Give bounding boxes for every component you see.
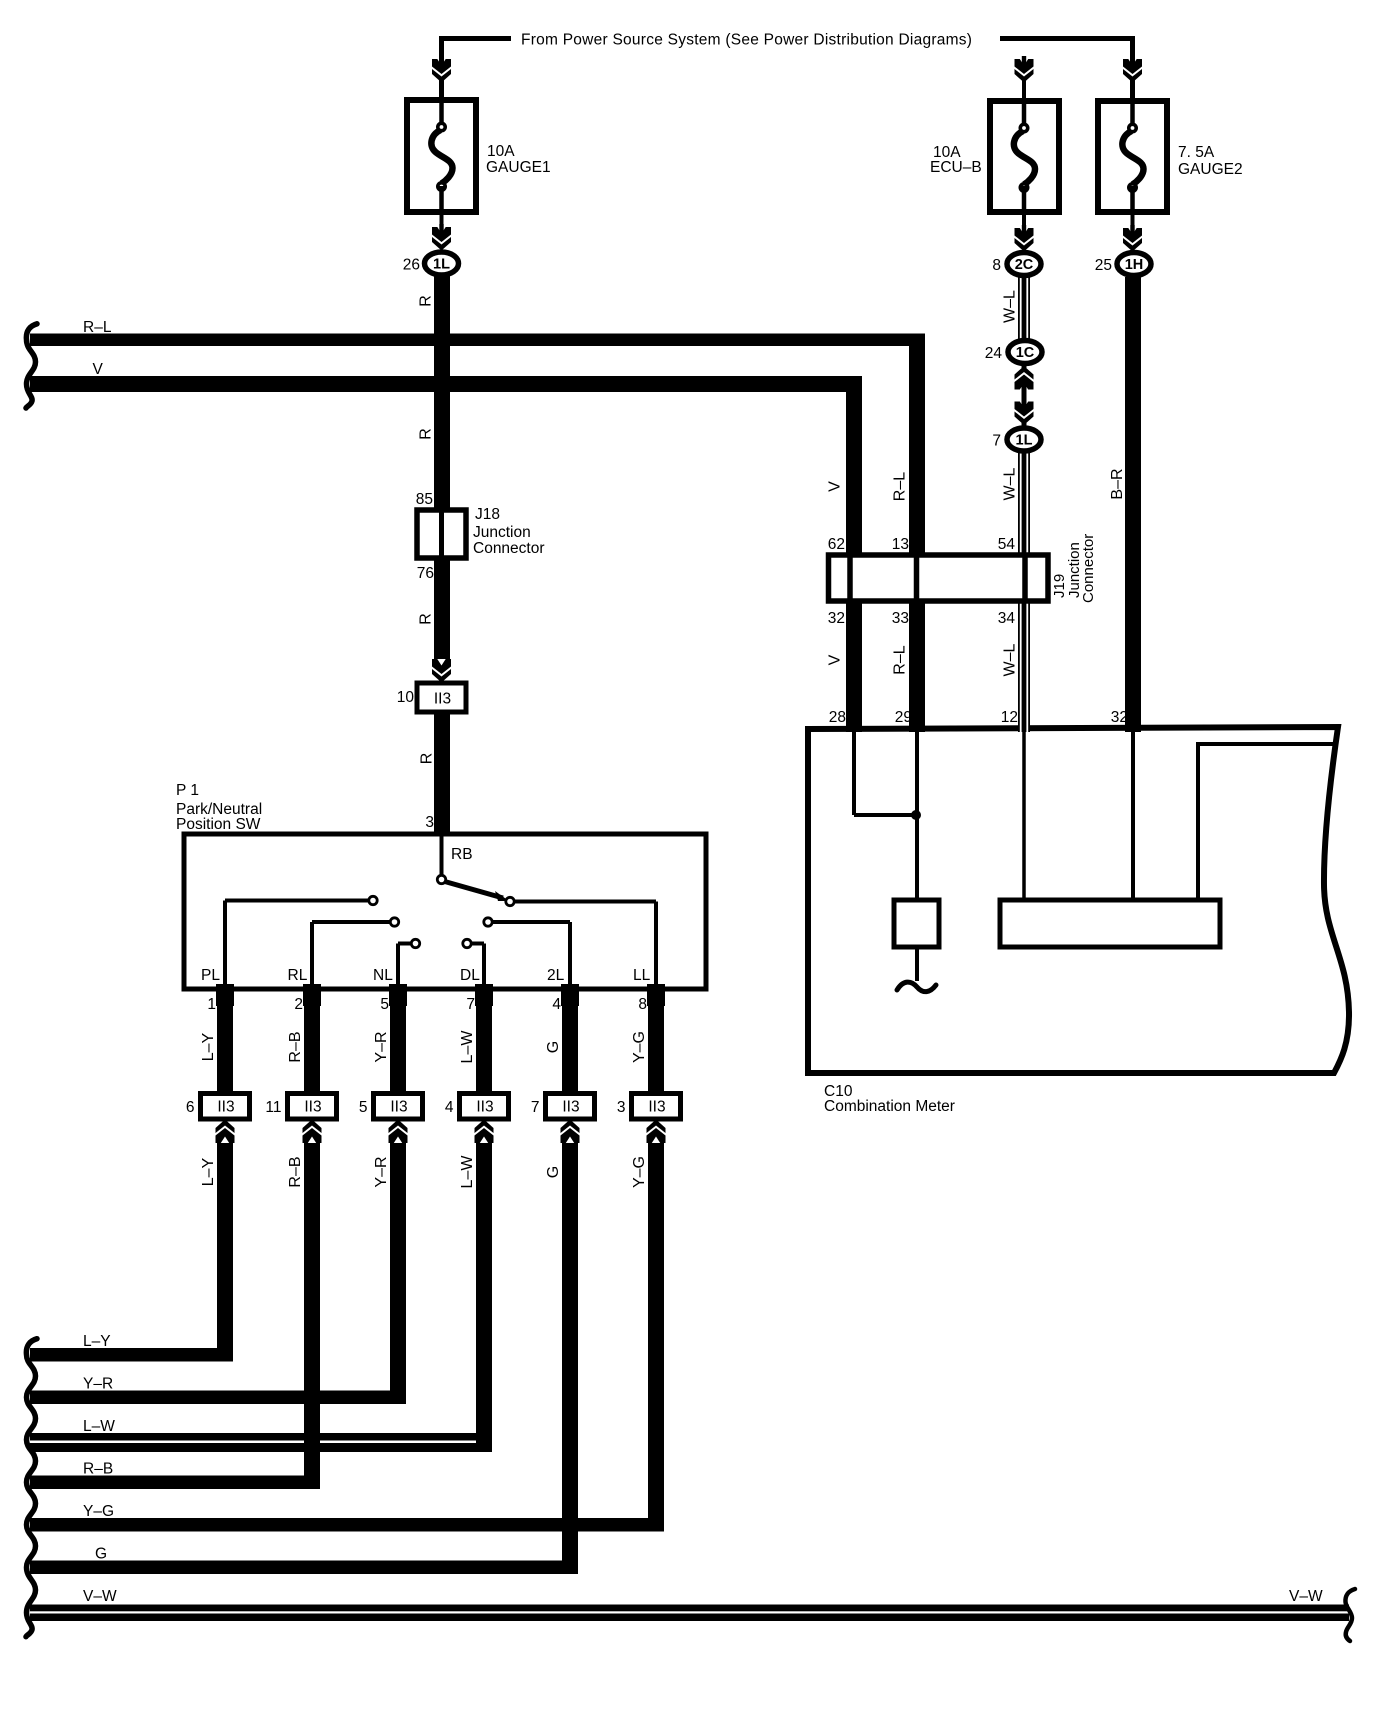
svg-text:4: 4 [445,1099,454,1116]
svg-text:11: 11 [265,1099,281,1116]
svg-text:Position SW: Position SW [176,816,261,833]
svg-text:34: 34 [998,610,1016,627]
svg-text:2: 2 [294,996,303,1013]
svg-text:NL: NL [373,967,393,984]
svg-text:II3: II3 [648,1099,665,1116]
svg-text:II3: II3 [304,1099,321,1116]
svg-text:RB: RB [451,846,473,863]
svg-text:G: G [95,1546,107,1563]
svg-text:RL: RL [288,967,308,984]
svg-text:25: 25 [1095,257,1112,274]
svg-text:ECU–B: ECU–B [930,159,982,176]
svg-text:28: 28 [829,709,846,726]
svg-text:II3: II3 [562,1099,579,1116]
svg-text:R: R [418,295,435,307]
svg-text:7: 7 [466,996,475,1013]
svg-text:Y–R: Y–R [373,1031,390,1062]
svg-text:1H: 1H [1125,257,1144,273]
svg-text:II3: II3 [476,1099,493,1116]
svg-text:Y–G: Y–G [631,1156,648,1188]
svg-text:G: G [545,1166,562,1178]
svg-text:Y–G: Y–G [631,1031,648,1063]
svg-text:54: 54 [998,536,1016,553]
svg-text:85: 85 [416,491,433,508]
svg-text:L–Y: L–Y [200,1032,217,1061]
svg-text:V: V [93,361,104,378]
svg-text:G: G [545,1041,562,1053]
svg-text:L–Y: L–Y [200,1157,217,1186]
svg-text:4: 4 [552,996,561,1013]
svg-text:13: 13 [892,536,909,553]
svg-text:L–W: L–W [83,1418,115,1435]
svg-text:Combination Meter: Combination Meter [824,1098,955,1115]
svg-text:V: V [827,654,844,665]
svg-text:B–R: B–R [1109,468,1126,499]
svg-text:R–L: R–L [83,319,112,336]
svg-text:3: 3 [425,814,434,831]
svg-text:Connector: Connector [473,540,545,557]
svg-text:R–L: R–L [892,472,909,501]
svg-text:Y–R: Y–R [373,1156,390,1187]
svg-text:76: 76 [417,565,434,582]
svg-text:7: 7 [531,1099,540,1116]
svg-text:2C: 2C [1015,257,1034,273]
svg-text:1C: 1C [1016,345,1035,361]
svg-text:5: 5 [380,996,389,1013]
svg-text:1L: 1L [433,257,450,273]
svg-text:GAUGE1: GAUGE1 [486,159,551,176]
svg-text:8: 8 [992,257,1001,274]
svg-text:33: 33 [892,610,909,627]
svg-text:V: V [827,481,844,492]
svg-text:62: 62 [828,536,845,553]
svg-text:2L: 2L [547,967,565,984]
svg-text:R–B: R–B [287,1156,304,1187]
svg-text:Junction: Junction [473,524,531,541]
svg-text:II3: II3 [390,1099,407,1116]
svg-text:L–W: L–W [459,1030,476,1064]
svg-text:DL: DL [460,967,480,984]
svg-text:7: 7 [992,433,1001,450]
svg-text:5: 5 [359,1099,368,1116]
svg-text:8: 8 [638,996,647,1013]
svg-text:II3: II3 [217,1099,234,1116]
svg-text:P 1: P 1 [176,782,199,799]
svg-text:PL: PL [201,967,220,984]
svg-text:W–L: W–L [1002,643,1019,676]
svg-text:L–W: L–W [459,1155,476,1189]
svg-text:W–L: W–L [1002,290,1019,323]
svg-text:12: 12 [1001,709,1018,726]
svg-text:26: 26 [403,257,420,274]
svg-text:R: R [418,428,435,440]
svg-text:3: 3 [617,1099,626,1116]
svg-text:R: R [419,753,436,765]
svg-text:II3: II3 [434,691,451,708]
svg-text:LL: LL [633,967,651,984]
svg-text:24: 24 [985,345,1003,362]
svg-text:From Power Source System (See: From Power Source System (See Power Dist… [521,32,972,49]
svg-text:GAUGE2: GAUGE2 [1178,161,1243,178]
svg-text:10A: 10A [487,143,515,160]
svg-text:J18: J18 [475,506,500,523]
svg-text:Connector: Connector [1080,534,1097,603]
svg-text:Y–R: Y–R [83,1376,113,1393]
svg-text:L–Y: L–Y [83,1333,111,1350]
svg-text:V–W: V–W [83,1588,117,1605]
svg-text:W–L: W–L [1002,467,1019,500]
svg-text:1L: 1L [1016,433,1033,449]
svg-text:R–B: R–B [83,1461,113,1478]
svg-text:32: 32 [1111,709,1128,726]
svg-text:6: 6 [186,1099,195,1116]
svg-text:R–B: R–B [287,1031,304,1062]
svg-text:29: 29 [895,709,912,726]
svg-text:7. 5A: 7. 5A [1178,144,1215,161]
svg-text:R–L: R–L [892,645,909,674]
svg-text:R: R [418,613,435,625]
svg-text:10: 10 [397,689,415,706]
svg-text:1: 1 [207,996,216,1013]
svg-text:Y–G: Y–G [83,1503,114,1520]
svg-text:V–W: V–W [1289,1588,1323,1605]
svg-text:32: 32 [828,610,845,627]
